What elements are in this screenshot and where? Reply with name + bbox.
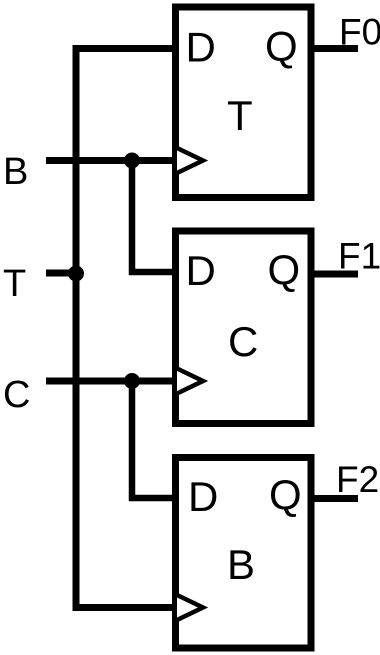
junction dot B/D2 bbox=[124, 153, 140, 169]
flip-flop U1 clock triangle bbox=[177, 148, 203, 173]
flip-flop U3 clock triangle bbox=[177, 595, 203, 620]
wire T bus vertical bbox=[76, 49, 176, 608]
svg-text:B: B bbox=[3, 151, 28, 193]
svg-text:D: D bbox=[186, 24, 216, 71]
wire C to U3 D input bbox=[132, 381, 176, 498]
flip-flop U2 box bbox=[176, 231, 312, 424]
wire C input to U2 clock bbox=[46, 378, 176, 385]
svg-text:Q: Q bbox=[268, 246, 301, 293]
svg-text:Q: Q bbox=[269, 471, 302, 518]
svg-text:D: D bbox=[186, 247, 216, 294]
svg-text:T: T bbox=[227, 92, 253, 139]
svg-text:C: C bbox=[3, 374, 30, 416]
svg-text:F2: F2 bbox=[336, 459, 379, 500]
wire U2 Q output F1 bbox=[311, 271, 358, 278]
svg-text:B: B bbox=[227, 541, 255, 588]
junction dot T/bus bbox=[68, 266, 84, 282]
wire B input to U1 clock bbox=[46, 157, 176, 164]
flip-flop U1 box bbox=[176, 7, 312, 198]
svg-text:C: C bbox=[228, 318, 258, 365]
wire U1 Q output F0 bbox=[311, 45, 358, 52]
wire U3 Q output F2 bbox=[311, 495, 358, 502]
flip-flop U3 box bbox=[176, 458, 312, 649]
svg-text:T: T bbox=[3, 263, 26, 305]
flip-flop U2 clock triangle bbox=[177, 369, 203, 394]
junction dot C/D3 bbox=[124, 373, 140, 389]
wire T input stub bbox=[46, 270, 79, 277]
svg-text:Q: Q bbox=[265, 23, 298, 70]
svg-text:D: D bbox=[188, 473, 218, 520]
wire B to U2 D input bbox=[132, 161, 176, 273]
svg-text:F1: F1 bbox=[338, 236, 380, 277]
